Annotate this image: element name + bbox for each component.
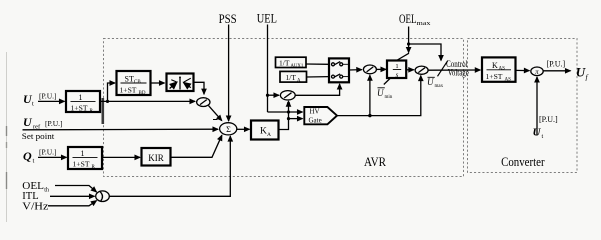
label U_min lower limit xyxy=(377,88,393,100)
wire ITL into OR gate xyxy=(50,195,95,197)
AVR section label xyxy=(364,154,386,169)
svg-text:KIR: KIR xyxy=(148,153,164,163)
label [P.U.] on U_ref line xyxy=(45,119,63,128)
svg-text:π: π xyxy=(535,69,539,76)
svg-text:max: max xyxy=(417,20,432,27)
svg-text:t: t xyxy=(542,134,544,140)
input label OEL_th xyxy=(22,181,49,194)
input label U_t xyxy=(23,92,34,108)
block HV gate xyxy=(304,107,337,125)
input label Q_t xyxy=(23,149,35,165)
wire HV gate feedback run xyxy=(337,76,421,116)
wire U_t into multiplier xyxy=(536,77,538,136)
wire V/Hz into OR gate xyxy=(48,201,97,206)
svg-text:U: U xyxy=(576,65,586,80)
input label V/Hz xyxy=(22,202,49,213)
block K_A xyxy=(251,121,279,140)
input label U_ref xyxy=(23,115,41,131)
svg-text:AUX1: AUX1 xyxy=(291,64,304,69)
wire S4 to integrator xyxy=(376,68,386,70)
label [P.U.] on Q_t line xyxy=(39,148,57,157)
svg-text:[P.U.]: [P.U.] xyxy=(45,119,63,128)
svg-text:U: U xyxy=(533,127,542,139)
svg-text:A: A xyxy=(297,79,301,84)
svg-text:U: U xyxy=(23,115,33,129)
wire OR gate output up into main summer S1 xyxy=(109,136,230,196)
node junction on feedback run xyxy=(368,114,371,117)
svg-text:1+ST: 1+ST xyxy=(120,86,137,95)
scan artifact faint page line xyxy=(6,52,8,222)
input label ITL xyxy=(22,191,38,202)
wire KIR diagonal to main summer S1 xyxy=(171,135,222,157)
svg-text:Q: Q xyxy=(23,149,32,163)
wire OEL_max branch to output limiter xyxy=(409,44,441,61)
wire OEL_th into OR gate xyxy=(55,186,97,193)
block G1 1/(1+ST_R) for U_t xyxy=(66,91,100,114)
svg-text:Converter: Converter xyxy=(501,155,545,169)
wire Q filtered to KIR xyxy=(102,156,140,158)
label [P.U.] on U_t line xyxy=(39,92,57,101)
wire feedback riser into S4 xyxy=(369,75,371,115)
label PSS xyxy=(219,12,237,26)
wire S1 to K_A xyxy=(237,128,250,130)
svg-text:Σ: Σ xyxy=(226,125,231,134)
wire to HV gate input 2 xyxy=(289,118,303,120)
svg-text:K: K xyxy=(492,61,498,70)
wire 1/T_AUX to switch xyxy=(306,63,329,65)
wire U_t filtered signal to summer S2 xyxy=(100,100,195,102)
svg-text:PSS: PSS xyxy=(219,12,237,26)
node junction on riser xyxy=(287,102,290,105)
svg-text:1: 1 xyxy=(79,93,83,102)
svg-text:th: th xyxy=(44,188,49,194)
wire control voltage line to converter xyxy=(428,69,480,71)
svg-text:1/T: 1/T xyxy=(286,73,297,82)
svg-text:K: K xyxy=(260,127,267,137)
block selector switch xyxy=(329,58,349,82)
wire dead-band output down to summer S2 xyxy=(194,82,205,94)
svg-text:ITL: ITL xyxy=(22,191,38,202)
node OEL_max branch junction xyxy=(407,42,410,45)
svg-text:s: s xyxy=(396,71,399,79)
wire UEL lower run to HV gate input 1 xyxy=(268,111,303,113)
svg-text:HV: HV xyxy=(310,108,320,116)
svg-text:min: min xyxy=(385,95,393,100)
svg-text:UEL: UEL xyxy=(257,12,277,26)
svg-text:1+ST: 1+ST xyxy=(73,159,90,168)
svg-text:U: U xyxy=(377,88,384,98)
wire riser to washout block xyxy=(108,83,116,101)
label OEL_max xyxy=(399,12,431,27)
svg-text:Set point: Set point xyxy=(22,131,55,141)
output label U_f xyxy=(576,65,589,82)
wire U_ref to main summer S1 xyxy=(23,128,219,131)
wire washout to dead-band xyxy=(151,82,165,84)
svg-text:1: 1 xyxy=(81,149,85,158)
svg-text:[P.U.]: [P.U.] xyxy=(539,115,558,124)
wire U_t input xyxy=(38,100,65,102)
block washout ST_CB/(1+ST_BD) xyxy=(117,71,151,96)
scan artifact dark segment on AVR left border xyxy=(102,98,105,124)
block KIR xyxy=(142,148,171,166)
wire converter block to multiplier xyxy=(516,69,530,71)
svg-text:[P.U.]: [P.U.] xyxy=(547,60,566,69)
svg-text:AS: AS xyxy=(505,77,512,82)
svg-text:1/T: 1/T xyxy=(279,58,290,67)
label [P.U.] on U_t riser xyxy=(539,115,558,124)
wire S3 output to switch bottom xyxy=(295,84,339,95)
block converter K_AS/(1+ST_AS) xyxy=(482,57,516,82)
wire UEL vertical drop xyxy=(267,25,269,113)
wire S2 diagonal to main summer S1 xyxy=(209,106,222,121)
node junction on HV input 1 run xyxy=(287,110,290,113)
wire integrator to limiter L1 xyxy=(407,69,414,71)
label Control Voltage xyxy=(446,59,469,78)
svg-text:1+ST: 1+ST xyxy=(486,72,503,81)
svg-text:CB: CB xyxy=(134,80,141,85)
label Set point xyxy=(22,131,55,141)
wire K_A output riser xyxy=(279,101,289,129)
block gain 1/T_AUX xyxy=(276,57,307,69)
wire switch output to summer S4 xyxy=(349,69,362,71)
wire 1/T_A to switch xyxy=(307,76,330,78)
wire PSS drop into summer S1 xyxy=(228,25,230,122)
svg-text:Voltage: Voltage xyxy=(448,68,469,78)
svg-text:1: 1 xyxy=(395,63,398,70)
minus sign at S1 upper-left xyxy=(213,119,218,121)
svg-text:f: f xyxy=(586,73,589,82)
svg-text:AVR: AVR xyxy=(364,154,386,169)
svg-text:t: t xyxy=(33,158,35,165)
svg-text:[P.U.]: [P.U.] xyxy=(39,92,57,101)
label [P.U.] on output xyxy=(547,60,566,69)
wire OEL_max drop to integrator upper limit xyxy=(408,27,410,53)
Converter dashed enclosure xyxy=(468,39,578,173)
svg-text:1+ST: 1+ST xyxy=(71,103,88,112)
wire UEL branch to summer S3 xyxy=(268,94,280,96)
OR gate xyxy=(96,191,110,202)
svg-text:t: t xyxy=(32,101,34,108)
Converter section label xyxy=(501,155,545,169)
label U_max lower limit xyxy=(427,77,444,89)
limit slash on control voltage line xyxy=(438,61,448,77)
wire U_f output xyxy=(543,70,570,72)
svg-text:Gate: Gate xyxy=(309,117,322,125)
limiter L1 circle xyxy=(415,66,428,74)
svg-text:ST: ST xyxy=(125,74,134,83)
label UEL xyxy=(257,12,277,26)
summer S4 xyxy=(363,65,376,74)
svg-text:U: U xyxy=(427,77,434,87)
svg-text:V/Hz: V/Hz xyxy=(22,202,49,213)
svg-text:A: A xyxy=(267,132,271,138)
label U_t under riser xyxy=(533,127,544,141)
svg-text:AS: AS xyxy=(499,66,506,71)
node junction to washout path xyxy=(106,100,109,103)
svg-text:[P.U.]: [P.U.] xyxy=(39,148,57,157)
main summer S1 xyxy=(220,123,237,135)
node UEL branch junction xyxy=(266,94,269,97)
block dead-band limiter xyxy=(167,74,194,92)
AVR dashed enclosure xyxy=(104,39,464,177)
svg-text:BD: BD xyxy=(139,91,146,96)
summer S2 (U_t + washout) xyxy=(197,98,210,107)
svg-text:OEL: OEL xyxy=(399,12,417,26)
node junction on riser (HV input 2) xyxy=(287,117,290,120)
svg-text:max: max xyxy=(435,84,444,89)
block gain 1/T_A xyxy=(280,71,307,83)
block limited integrator 1/s xyxy=(384,53,409,84)
wire Q_t input xyxy=(38,156,67,158)
block G2 1/(1+ST_R) for Q_t xyxy=(68,147,102,170)
summer S3 (UEL + K_A) xyxy=(280,91,295,100)
multiplier M1 xyxy=(531,67,543,76)
